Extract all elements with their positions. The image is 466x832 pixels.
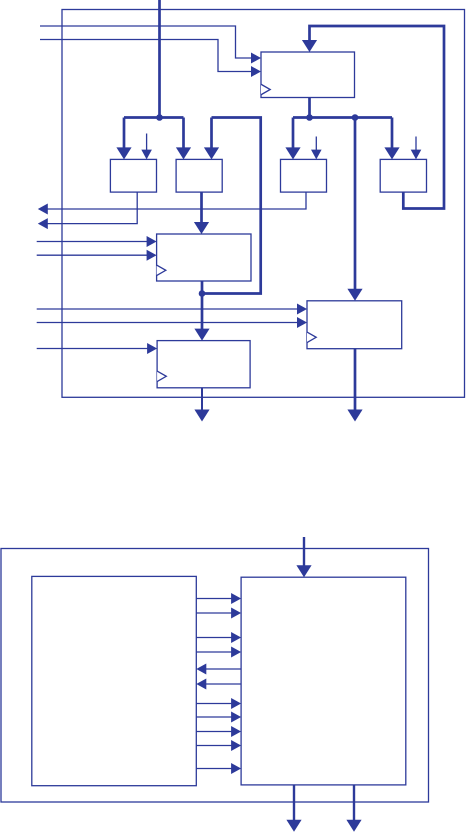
wire control stub into block B1 — [146, 134, 148, 152]
node N2 junction — [306, 114, 313, 121]
wire LEFT-to-RIGHT signal 8 — [196, 745, 232, 747]
block B4 — [380, 159, 426, 192]
wire feedback loop from block B4 output up to register R1 top input — [310, 26, 445, 209]
wire long bus from node N2b down to register R4 top input — [354, 118, 357, 290]
register R3 clock input triangle — [157, 371, 166, 382]
wire bus branch into block B4 — [391, 118, 394, 149]
wire control stub into block B3 — [315, 137, 317, 152]
wire LEFT-to-RIGHT signal 1 — [196, 598, 232, 600]
wire input-bus-B to mux M1 input 2 — [40, 40, 252, 72]
block B1 — [110, 159, 156, 192]
register R4 clock input triangle — [307, 332, 316, 343]
wire bus branch into block B1 — [123, 118, 126, 149]
node N1 junction — [156, 114, 163, 121]
wire bus N1 horizontal span — [124, 116, 184, 119]
wire input line to register R4 data 2 — [37, 322, 298, 324]
wire RIGHT unit output exit arrow 2 — [353, 785, 355, 821]
register R2 — [157, 234, 251, 281]
wire main vertical bus into node N1 — [158, 0, 161, 118]
wire control stub into block B4 — [415, 137, 417, 152]
node N2b junction — [352, 114, 359, 121]
block B3 — [281, 159, 327, 192]
outer enclosure box of top datapath diagram — [62, 10, 465, 398]
wire register R1 output to node N2 — [308, 98, 311, 118]
block LEFT unit — [32, 576, 197, 785]
wire register R4 output exit arrow — [354, 349, 357, 411]
wire LEFT-to-RIGHT signal 7 — [196, 731, 232, 733]
block RIGHT unit — [241, 577, 406, 785]
wire LEFT-to-RIGHT signal 5 — [196, 703, 232, 705]
wire LEFT-to-RIGHT signal 4 — [196, 651, 232, 653]
wire input-bus-A to mux M1 input 1 — [40, 26, 252, 58]
node N3 junction — [199, 290, 206, 297]
wire LEFT-to-RIGHT signal 9 — [196, 768, 232, 770]
wire RIGHT-to-LEFT signal 1 — [205, 668, 241, 670]
wire block B3 output to left exit — [47, 192, 306, 209]
wire input to register R2 data 1 — [37, 241, 148, 243]
wire bus N2 horizontal span — [293, 116, 392, 119]
wire LEFT-to-RIGHT signal 2 — [196, 612, 232, 614]
wire input line to register R4 data 1 — [37, 308, 298, 310]
register R4 — [307, 301, 402, 349]
wire bus branch into block B2 — [182, 118, 185, 149]
wire RIGHT unit output exit arrow 1 — [293, 785, 295, 821]
wire input to register R2 data 2 — [37, 254, 148, 256]
wire register R2 output to node N3 — [201, 281, 204, 294]
wire node N3 down into register R3 top input — [201, 294, 204, 330]
register R2 clock input triangle — [157, 265, 166, 276]
wire bus branch into block B3 — [292, 118, 295, 149]
wire LEFT-to-RIGHT signal 6 — [196, 716, 232, 718]
wire RIGHT-to-LEFT signal 2 — [205, 683, 241, 685]
wire register R3 output exit arrow — [201, 388, 203, 411]
wire block B1 output to left exit — [47, 192, 137, 224]
wire input to register R3 data — [37, 348, 148, 350]
register R1 — [261, 52, 355, 98]
wire feedback from node N3 to block B2 second input — [202, 118, 261, 294]
wire external input into RIGHT unit top — [303, 537, 305, 566]
wire block B2 output into register R2 top input — [200, 192, 203, 223]
outer enclosure box of bottom interface diagram — [1, 549, 429, 803]
wire LEFT-to-RIGHT signal 3 — [196, 637, 232, 639]
register R1 clock input triangle — [261, 84, 270, 95]
register R3 — [157, 341, 250, 388]
block B2 — [176, 159, 222, 192]
